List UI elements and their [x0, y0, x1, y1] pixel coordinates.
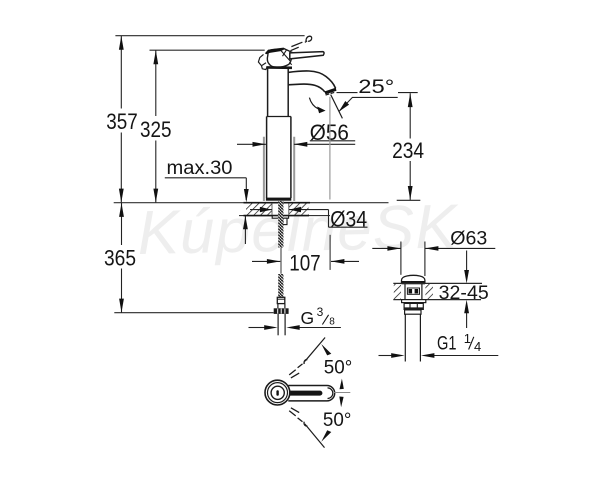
- faucet neck: [268, 68, 289, 116]
- swivel double arrow: [340, 379, 344, 390]
- lever bar slot: [286, 391, 322, 396]
- waste nut: [404, 303, 423, 309]
- faucet body column: [267, 117, 291, 199]
- dimension Ø34: [250, 209, 272, 211]
- lever handle: [290, 52, 324, 59]
- svg-text:Ø34: Ø34: [330, 207, 367, 232]
- faucet base band: [266, 198, 291, 201]
- faucet body gray shading left: [263, 137, 265, 201]
- pivot outer circle: [265, 380, 290, 405]
- svg-text:max.30: max.30: [167, 158, 233, 179]
- dimension G1 1/4: [379, 355, 392, 357]
- dimension 365: [121, 203, 123, 313]
- dimension 357: [120, 36, 122, 203]
- pop-up waste cap dome: [402, 275, 425, 283]
- svg-text:50°: 50°: [324, 356, 353, 378]
- hose nut G3/8: [274, 308, 289, 314]
- clamp nut: [283, 218, 287, 224]
- svg-text:365: 365: [104, 245, 136, 270]
- spout aerator: [325, 88, 337, 94]
- svg-text:107: 107: [289, 251, 321, 276]
- threaded shank upper: [278, 201, 283, 248]
- lever top view bar: [288, 386, 334, 401]
- faucet body gray shading right: [293, 137, 295, 201]
- 25 deg arc arrow: [309, 98, 318, 110]
- threaded hose lower: [278, 274, 283, 299]
- svg-text:234: 234: [392, 138, 424, 163]
- pivot inner circle: [271, 386, 284, 399]
- lower 50 deg leader: [305, 424, 325, 448]
- extension line top (357 level): [115, 35, 304, 37]
- counter hatch left: [246, 203, 272, 215]
- lever rotated down dashed: [289, 408, 307, 426]
- lever diagram center line: [334, 392, 350, 394]
- extension line 325 level: [150, 49, 265, 51]
- counter bottom line: [239, 215, 330, 217]
- washer below counter: [272, 216, 288, 218]
- waste counter top line: [393, 282, 482, 284]
- upper 50 deg leader: [305, 338, 325, 362]
- extension line bottom (365 level): [114, 312, 273, 314]
- waste flange below counter: [402, 300, 426, 303]
- hose collar: [277, 297, 285, 303]
- 25 deg slant line: [331, 95, 343, 119]
- waste cap base band: [401, 281, 425, 284]
- waste overflow windows: [407, 288, 419, 294]
- mounting hole edge left: [271, 203, 273, 215]
- svg-text:G1: G1: [437, 332, 457, 354]
- svg-text:8: 8: [329, 317, 335, 328]
- head bottom band: [266, 66, 292, 69]
- waste counter hatch left: [394, 284, 401, 299]
- svg-text:1: 1: [464, 331, 471, 346]
- 25 deg reference line: [337, 92, 358, 94]
- svg-text:25°: 25°: [358, 76, 394, 98]
- svg-text:4: 4: [474, 339, 481, 354]
- dimension 107: [252, 260, 280, 262]
- svg-text:32-45: 32-45: [439, 282, 489, 304]
- head inner facet lines: [281, 50, 292, 65]
- faucet axis line: [280, 248, 282, 274]
- svg-text:325: 325: [140, 117, 172, 142]
- lever collar: [292, 53, 294, 59]
- connection pipe G3/8: [277, 314, 279, 335]
- head left flaps: [258, 54, 266, 65]
- lever rotated up dashed: [289, 360, 307, 378]
- dimension 234: [409, 93, 411, 200]
- waste counter hatch right: [425, 284, 433, 299]
- svg-text:50°: 50°: [323, 409, 352, 431]
- faucet spout: [288, 71, 336, 88]
- pivot middle circle: [268, 383, 288, 403]
- counter top line: [114, 202, 389, 204]
- svg-text:G: G: [301, 308, 315, 328]
- waste tube through counter: [404, 284, 406, 300]
- svg-text:3: 3: [317, 305, 324, 319]
- counter hatch right: [289, 203, 309, 215]
- mounting hole edge right: [288, 203, 290, 215]
- svg-text:Ø63: Ø63: [450, 227, 487, 249]
- lever raised dashed: [291, 36, 312, 51]
- faucet head dome: [267, 48, 292, 67]
- dimension G3/8: [249, 327, 265, 329]
- 25 deg leader: [339, 97, 398, 111]
- waste counter bottom line: [393, 299, 481, 301]
- waste tailpipe: [404, 314, 406, 361]
- waste lower collar: [405, 310, 421, 314]
- lever bar tip inner arc: [328, 388, 333, 399]
- faucet head top black band: [265, 48, 285, 54]
- spout outlet axis line: [329, 97, 331, 200]
- pivot center slot: [276, 390, 278, 396]
- dimension 325: [155, 50, 157, 202]
- svg-text:357: 357: [106, 109, 138, 134]
